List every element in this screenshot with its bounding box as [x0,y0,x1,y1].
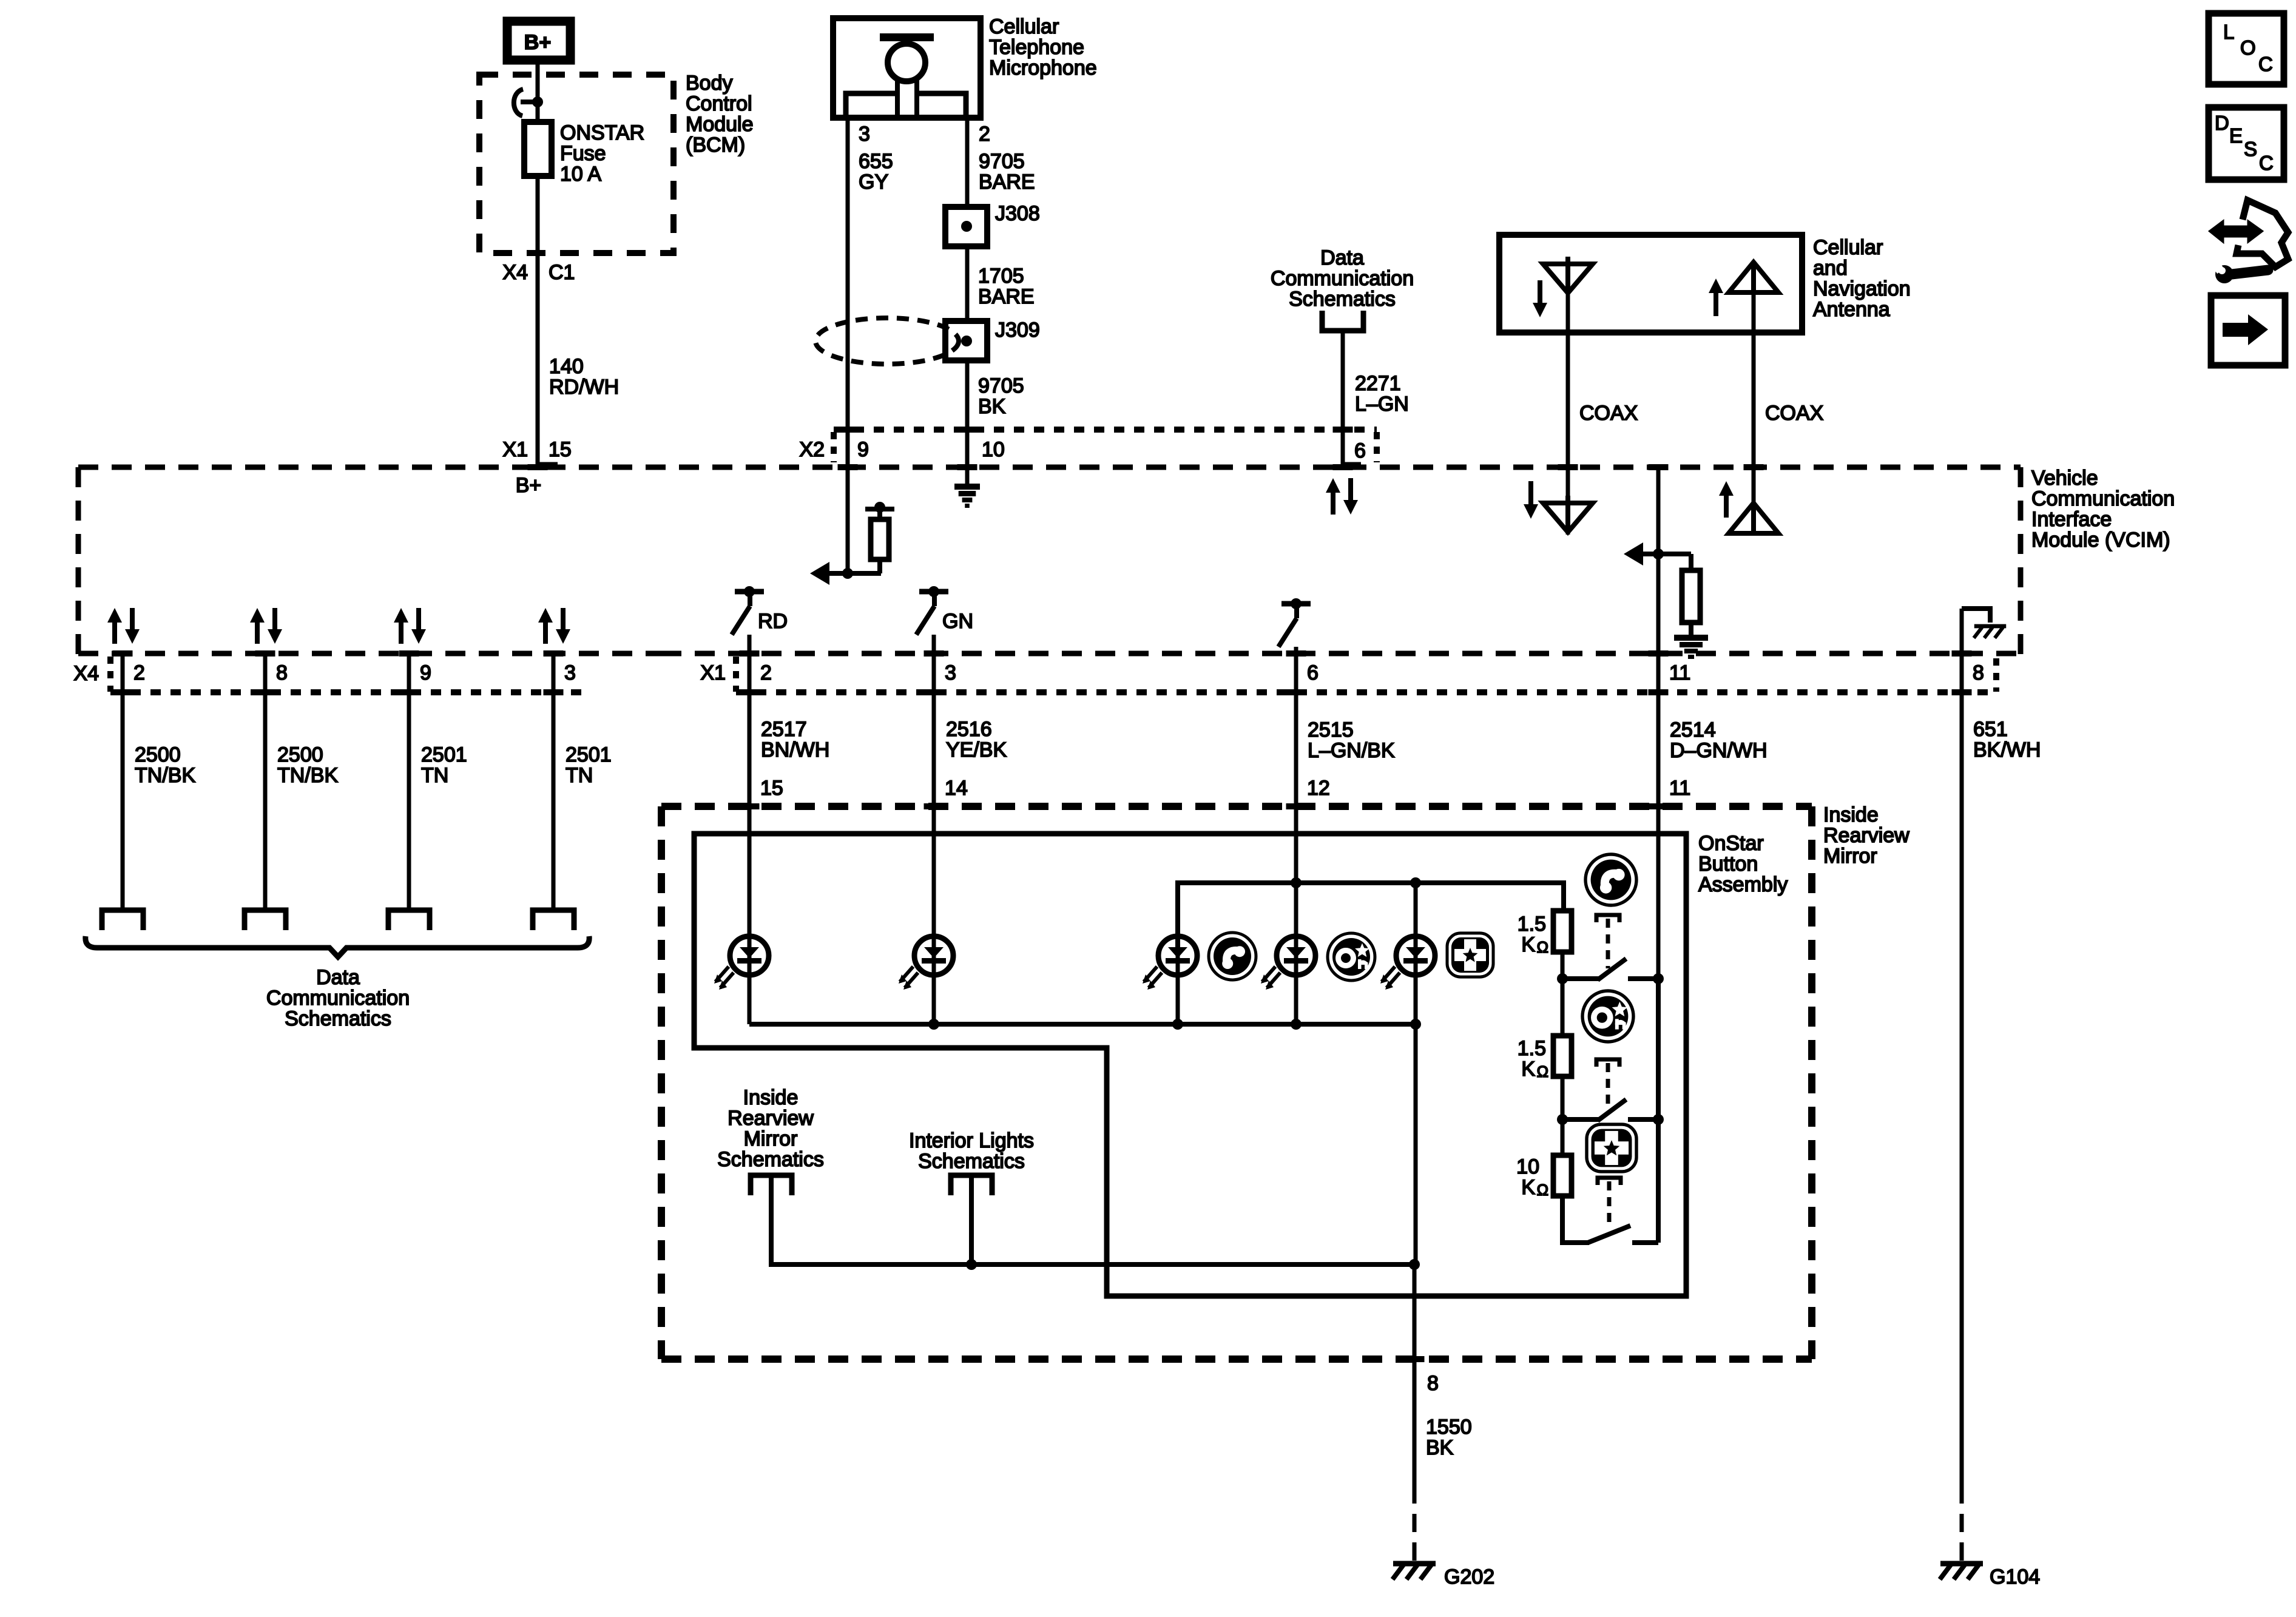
svg-text:8: 8 [276,661,288,684]
svg-text:BK: BK [1426,1436,1454,1459]
LED emergency [1380,936,1435,990]
svg-text:C: C [2259,152,2274,174]
svg-text:9: 9 [857,438,869,461]
legend box LOC [2209,13,2284,84]
off-page connector Interior Lights Schematics [951,1175,992,1195]
wire fuse to X4/C1 [536,176,540,467]
svg-text:10: 10 [1516,1155,1539,1178]
svg-text:TN: TN [421,764,448,787]
svg-text:Inside: Inside [1823,803,1879,826]
svg-text:YE/BK: YE/BK [946,738,1007,761]
splice J308 [945,207,987,246]
COAX wire left [1566,293,1570,535]
wire 651 dashed tail [1960,1485,1964,1564]
svg-text:Data: Data [1320,246,1364,269]
actuator dashed link phone button [1596,915,1619,922]
svg-text:OnStar: OnStar [1698,832,1764,855]
svg-text:Fuse: Fuse [560,142,606,165]
svg-text:E: E [2229,124,2243,147]
icon OnStar [1328,933,1375,981]
wire 2515 top [1294,647,1298,653]
wire 2515 L-GN/BK [1294,653,1298,956]
OnStar Button Assembly box outline [694,834,1686,1296]
off-page connector [245,910,286,930]
svg-text:3: 3 [564,661,576,684]
wire X4 pin 8 [263,653,268,908]
svg-text:2500: 2500 [277,743,323,766]
svg-text:651: 651 [1973,718,2008,741]
svg-text:12: 12 [1307,777,1330,800]
X2 bracket dotted [831,432,837,462]
ground G202 [1393,1561,1436,1567]
X1 connector dotted line left [110,689,586,695]
junction dot at fuse tap [532,96,543,107]
wire foot at pin 6 [1343,462,1361,468]
ground G104 [1940,1561,1983,1567]
svg-text:Vehicle: Vehicle [2031,467,2098,490]
off-page connector to Data Communication Schematics [1322,311,1363,331]
switch 3 right contact [1632,1240,1658,1245]
svg-text:D: D [2215,112,2229,134]
VCIM input arrow + terminator on 2514 [1624,542,1643,565]
LED telephone [1143,936,1197,990]
svg-text:2: 2 [760,661,772,684]
svg-text:BARE: BARE [978,285,1035,308]
X2 connector dotted line [834,427,1377,433]
svg-text:2516: 2516 [946,718,992,741]
svg-text:L: L [2223,21,2234,43]
wires LEDs to bus [1176,956,1180,1024]
bidirectional arrows at X4 pin [543,620,548,644]
wire switch2 to R3 [1561,1119,1565,1156]
svg-text:11: 11 [1669,777,1690,800]
wire 2514 D-GN/WH [1656,653,1661,977]
svg-text:Rearview: Rearview [728,1107,814,1130]
wire 2271 L-GN [1341,331,1345,467]
junction dot [1291,877,1302,888]
COAX wire right [1752,292,1756,503]
svg-text:D–GN/WH: D–GN/WH [1670,739,1768,762]
actuator dashed link emergency button [1598,1178,1621,1185]
wire 655 GY pin3 to VCIM [846,118,850,467]
VCIM box top dashed [78,465,2021,470]
off-page connector [102,910,143,930]
svg-text:Mirror: Mirror [1823,845,1877,868]
svg-text:G202: G202 [1444,1565,1494,1588]
legend box DESC [2209,107,2284,180]
wire from interior lights connector [969,1176,974,1264]
X1 connector dotted line right [736,689,1996,695]
svg-text:Button: Button [1698,852,1758,876]
svg-text:Control: Control [686,92,752,115]
off-page connector [388,910,430,930]
svg-text:Module (VCIM): Module (VCIM) [2031,528,2170,552]
X2 end bracket dotted [1374,432,1380,462]
svg-text:BK/WH: BK/WH [1973,738,2041,761]
wire right side of button column [1656,979,1661,1243]
chassis ground inside VCIM [1974,624,2007,629]
svg-text:TN: TN [566,764,593,787]
button emergency medical [1587,1124,1636,1172]
svg-text:COAX: COAX [1765,402,1823,425]
svg-text:2: 2 [133,661,145,684]
mirror box left dashed [658,806,665,1359]
svg-text:2271: 2271 [1355,372,1401,395]
wire from mirror schematics connector [771,1176,1416,1264]
svg-text:COAX: COAX [1579,402,1638,425]
junction dot [1409,1259,1420,1270]
switch 3 lever [1588,1226,1630,1243]
junction dot switch1 left [1557,973,1568,984]
splice J309 [945,321,987,360]
resistor 1.5 Kohm (OnStar) [1553,1036,1572,1076]
svg-text:Navigation: Navigation [1813,277,1911,300]
svg-text:Module: Module [686,113,754,136]
svg-text:TN/BK: TN/BK [135,764,195,787]
bidirectional arrows at X4 pin [255,620,260,644]
svg-text:Antenna: Antenna [1813,298,1890,321]
svg-text:RD: RD [758,610,788,633]
svg-text:K: K [1521,933,1535,956]
svg-text:1.5: 1.5 [1518,1037,1546,1060]
wire 2516 top [932,635,936,653]
terminating resistor [877,559,882,573]
svg-text:BK: BK [978,395,1006,418]
svg-text:Assembly: Assembly [1698,873,1788,896]
down arrow at antenna [1538,280,1542,305]
svg-text:S: S [2244,138,2257,160]
resistor 1.5 Kohm (phone) [1553,911,1572,952]
bidirectional arrows at X4 pin [399,620,403,644]
wire 9705 BARE pin2 to J308 [965,118,970,207]
LED OnStar [1261,936,1315,990]
svg-text:2514: 2514 [1670,718,1716,741]
svg-text:2501: 2501 [566,743,612,766]
svg-text:Communication: Communication [1271,267,1414,290]
switch 2 (OnStar) [1562,1117,1600,1122]
Cellular Telephone Microphone box [833,18,981,118]
svg-text:Interface: Interface [2031,508,2112,531]
svg-text:3: 3 [945,661,956,684]
button cluster top wire [1178,883,1564,956]
svg-text:2517: 2517 [761,718,807,741]
svg-text:B+: B+ [516,474,542,497]
svg-text:X2: X2 [799,438,825,461]
svg-text:B+: B+ [524,31,551,54]
mirror box bottom dashed [661,1355,1812,1363]
wire 1550 BK to G202 [1413,1264,1417,1485]
svg-text:6: 6 [1354,439,1366,462]
microphone symbol at pin 6 wire [1281,601,1311,607]
LED indicator (pin 14) [899,936,953,990]
wire 2514 inside VCIM [1656,467,1661,653]
switch 1 (phone) [1562,976,1600,981]
svg-text:140: 140 [549,355,584,378]
svg-text:8: 8 [1973,661,1984,684]
wire R1 to switch1 [1561,952,1565,979]
svg-text:9: 9 [420,661,431,684]
svg-text:TN/BK: TN/BK [277,764,338,787]
svg-text:GN: GN [942,610,973,633]
svg-text:8: 8 [1427,1372,1439,1395]
svg-text:Schematics: Schematics [1289,288,1396,311]
svg-text:RD/WH: RD/WH [549,376,619,399]
junction dot [966,1259,977,1270]
junction dot switch1 right [1653,973,1664,984]
down arrow inside VCIM [1528,481,1533,507]
svg-text:1705: 1705 [978,265,1024,288]
antenna symbol down inside VCIM [1543,503,1593,532]
svg-text:Ω: Ω [1537,1062,1548,1081]
svg-text:Inside: Inside [743,1086,799,1109]
svg-text:K: K [1521,1176,1535,1199]
svg-text:L–GN: L–GN [1355,393,1409,416]
svg-text:C1: C1 [549,261,575,284]
svg-text:Communication: Communication [266,987,410,1010]
svg-text:K: K [1521,1058,1535,1081]
svg-text:X1: X1 [502,438,528,461]
icon emergency medical [1447,933,1493,977]
svg-text:Interior Lights: Interior Lights [909,1129,1034,1152]
antenna symbol down (cellular) [1543,264,1593,293]
svg-text:Mirror: Mirror [744,1127,798,1150]
wire X4 pin 3 [552,653,556,908]
svg-text:9705: 9705 [978,374,1024,397]
svg-text:2515: 2515 [1308,718,1354,741]
svg-text:J308: J308 [995,202,1040,225]
svg-text:1550: 1550 [1426,1416,1472,1439]
junction dot switch2 left [1557,1114,1568,1125]
dashed ellipse around J309 [815,318,959,364]
LED indicator (pin 15) [714,936,769,990]
svg-text:2501: 2501 [421,743,467,766]
svg-text:J309: J309 [995,319,1040,342]
up arrow at antenna [1714,291,1718,316]
BCM dashed box [479,75,674,253]
wire 2516 YE/BK [932,653,936,956]
svg-text:2500: 2500 [135,743,181,766]
svg-text:10 A: 10 A [560,163,601,186]
svg-text:6: 6 [1307,661,1319,684]
button telephone [1585,854,1636,905]
Inside Rearview Mirror box top dashed [661,803,1812,810]
junction dot [1410,877,1421,888]
wire R3 to switch3 [1562,1196,1589,1243]
svg-text:1.5: 1.5 [1518,913,1546,936]
svg-text:C: C [2258,53,2273,75]
resistor 10 Kohm (emergency) [1553,1155,1572,1196]
wire 2517 BN/WH [748,653,752,956]
svg-text:BARE: BARE [979,170,1035,194]
svg-text:ONSTAR: ONSTAR [560,121,644,144]
VCIM box bottom-left dashed [78,651,661,657]
svg-text:655: 655 [859,150,893,173]
fuse ONSTAR 10A [524,122,552,176]
wire R2 to switch2 [1561,1076,1565,1119]
svg-text:BN/WH: BN/WH [761,738,829,761]
wire B+ to fuse [536,60,540,122]
svg-text:Cellular: Cellular [989,15,1059,38]
svg-text:L–GN/BK: L–GN/BK [1308,739,1395,762]
VCIM box bottom-right dashed [661,651,2021,657]
svg-text:(BCM): (BCM) [686,133,745,157]
wire LED bus down to ground path [1414,1024,1418,1264]
button OnStar [1582,991,1633,1042]
svg-text:Schematics: Schematics [918,1150,1025,1173]
svg-text:G104: G104 [1990,1565,2040,1588]
wire 651 hook to chassis ground [1960,609,1964,653]
bidirectional arrows below pin 6 [1331,490,1335,515]
svg-text:3: 3 [859,123,870,146]
ground below terminator [1674,635,1708,641]
brace Data Communication Schematics [86,936,589,957]
svg-text:and: and [1813,257,1848,280]
wire 1705 BARE [965,246,970,321]
wire 651 BK/WH [1960,653,1964,1485]
svg-text:Ω: Ω [1537,1181,1548,1199]
svg-text:9705: 9705 [979,150,1025,173]
legend icon: double arrow with hand and wrench [2210,222,2261,241]
svg-text:14: 14 [945,777,968,800]
svg-text:Body: Body [686,72,733,95]
power feed B+ symbol [507,21,570,60]
mirror box right dashed [1808,806,1815,1359]
junction dot [928,1019,939,1030]
svg-text:11: 11 [1669,661,1690,684]
actuator dashed link OnStar button [1596,1059,1619,1067]
svg-text:Rearview: Rearview [1823,824,1909,847]
junction dot switch2 right [1653,1114,1664,1125]
svg-text:15: 15 [549,438,572,461]
svg-text:Telephone: Telephone [989,36,1084,59]
svg-text:Cellular: Cellular [1813,236,1883,259]
icon telephone [1209,933,1256,980]
X1 bracket dotted [733,657,739,692]
svg-text:Schematics: Schematics [285,1007,391,1030]
wire LED 14 to bus [932,956,936,1024]
fuse hook [514,89,523,116]
antenna symbol up inside VCIM [1729,503,1778,533]
X1 end bracket dotted [1993,658,1999,692]
svg-text:X4: X4 [502,261,528,284]
svg-text:Schematics: Schematics [717,1148,824,1171]
wire X4 pin 9 [407,653,411,908]
microphone symbol GN [919,589,948,595]
VCIM box right dashed [2018,467,2024,657]
svg-text:O: O [2240,36,2256,59]
svg-text:10: 10 [982,438,1005,461]
svg-text:Data: Data [316,966,360,989]
svg-text:Communication: Communication [2031,487,2175,510]
svg-text:2: 2 [979,123,990,146]
off-page connector [533,910,574,930]
up arrow inside VCIM [1724,493,1729,518]
Cellular and Navigation Antenna box [1499,235,1802,333]
svg-text:X4: X4 [73,662,99,685]
microphone symbol [880,33,934,41]
ground symbol below pin 10 [954,484,980,490]
svg-text:GY: GY [859,170,888,194]
bidirectional arrows at X4 pin [112,620,117,644]
wire 9705 BK to ground [965,360,970,484]
svg-text:Ω: Ω [1537,938,1548,956]
wire switch1 to R2 [1561,979,1565,1036]
VCIM input arrow + terminator on 655 [846,467,850,573]
wire X4 pin 2 [121,653,125,908]
LED bus wire [748,956,752,1024]
svg-text:15: 15 [760,777,783,800]
X4 bracket dotted [107,657,113,692]
svg-text:X1: X1 [700,661,726,684]
off-page connector Inside Rearview Mirror Schematics [751,1175,792,1195]
wire foot at X1-15 [538,462,558,468]
microphone symbol RD [735,589,764,595]
wire 2517 top [748,635,752,653]
svg-text:Microphone: Microphone [989,56,1097,79]
VCIM box left dashed [76,467,81,654]
antenna symbol up (nav) [1729,262,1778,292]
legend box forward arrow [2211,295,2285,365]
